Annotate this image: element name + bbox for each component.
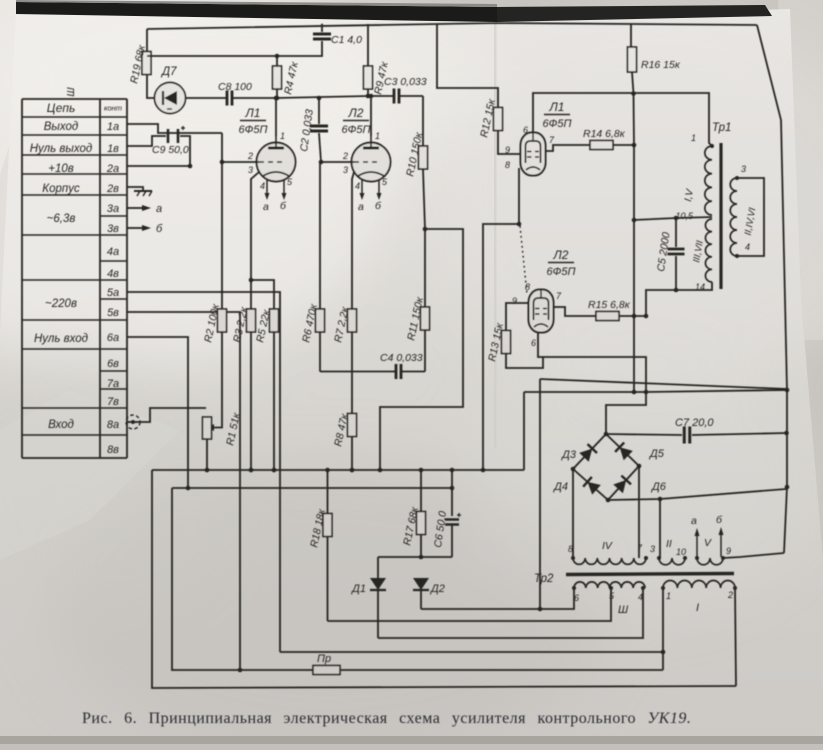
tube L2 pentode section (512, 248, 576, 348)
svg-text:V: V (704, 537, 712, 549)
svg-text:1в: 1в (107, 143, 119, 155)
wire Tr2 pin9 out (723, 553, 784, 558)
svg-text:6: 6 (531, 338, 536, 348)
resistor R15 (554, 299, 646, 321)
transformer Tr2 (534, 514, 737, 616)
resistor R4 (273, 56, 302, 100)
svg-text:10: 10 (676, 547, 686, 557)
svg-text:4: 4 (638, 592, 643, 602)
capacitor C9 electrolytic (152, 126, 189, 156)
svg-text:4в: 4в (107, 268, 119, 280)
svg-text:Д4: Д4 (552, 481, 568, 493)
transformer Tr1 primary (675, 122, 731, 292)
svg-text:5в: 5в (107, 307, 119, 319)
svg-text:C7 20,0: C7 20,0 (675, 417, 714, 429)
svg-text:6а: 6а (107, 332, 119, 344)
svg-text:а: а (691, 515, 697, 527)
svg-text:Выход: Выход (44, 121, 79, 133)
svg-text:Рис. 6. Принципиальная элек: Рис. 6. Принципиальная электрическая схе… (82, 710, 691, 727)
capacitor C3 (277, 76, 427, 104)
svg-text:C8 100: C8 100 (218, 81, 252, 93)
resistor R9 (364, 24, 392, 98)
svg-text:конт: конт (104, 104, 122, 113)
svg-text:9: 9 (512, 296, 517, 306)
wire to winding II pin3 (659, 499, 661, 558)
wire H652 (280, 650, 665, 655)
svg-text:C9 50,0: C9 50,0 (152, 144, 189, 156)
wire Tr2 pin1 down (662, 588, 664, 670)
wire Tr1 tap (634, 216, 712, 221)
tube L1 pentode section (505, 100, 572, 176)
svg-text:+10в: +10в (48, 163, 74, 175)
resistor R18 (308, 470, 332, 621)
svg-text:5а: 5а (107, 287, 119, 299)
svg-text:Д6: Д6 (650, 481, 667, 493)
svg-text:б: б (156, 223, 163, 235)
svg-text:Ш: Ш (66, 87, 77, 97)
wire L1a grid (220, 160, 259, 165)
svg-text:Д1: Д1 (350, 583, 366, 595)
connector table Sh (22, 87, 127, 458)
svg-text:3а: 3а (107, 203, 119, 215)
svg-text:4: 4 (745, 242, 750, 252)
capacitor C1 (147, 24, 362, 59)
wire D1 D2 anode link (378, 555, 452, 578)
svg-text:R14 6,8к: R14 6,8к (583, 128, 626, 140)
svg-text:4а: 4а (107, 246, 119, 258)
svg-text:R16 15к: R16 15к (641, 59, 681, 71)
svg-text:4: 4 (260, 181, 265, 191)
tube L1 triode section (239, 106, 296, 213)
wire bridge right to Tr2 (638, 466, 640, 558)
diode D7 (155, 66, 186, 114)
svg-text:I: I (696, 602, 699, 614)
svg-text:3: 3 (650, 544, 655, 554)
svg-text:Л1: Л1 (549, 100, 565, 114)
resistor R5 (251, 280, 279, 472)
wire bus2 (172, 470, 454, 516)
diode D2 (413, 578, 445, 609)
wire L2a grid (319, 160, 354, 165)
wire x540 heater rail (539, 379, 541, 609)
wire pentode L1 pin8 return (483, 168, 521, 470)
svg-text:8: 8 (505, 160, 510, 170)
svg-text:Л2: Л2 (348, 106, 364, 120)
capacitor C2 (298, 96, 328, 162)
capacitor C5 (655, 218, 684, 292)
wire bottom outer (152, 470, 736, 688)
svg-text:1: 1 (280, 131, 285, 141)
resistor R11 (405, 295, 429, 371)
svg-text:~6,3в: ~6,3в (47, 213, 76, 225)
capacitor C4 (320, 352, 425, 379)
caption (82, 710, 691, 727)
svg-text:а: а (263, 201, 269, 213)
resistor R8 (332, 412, 356, 472)
connector stub wires (126, 124, 280, 672)
svg-text:Пр: Пр (317, 653, 331, 665)
wire H621 (328, 588, 612, 621)
capacitor C6 electrolytic (432, 510, 461, 557)
svg-text:2а: 2а (106, 163, 119, 175)
wire Tr2 pin2 down (735, 588, 736, 686)
svg-text:Цепь: Цепь (47, 101, 76, 115)
svg-text:8в: 8в (107, 444, 119, 456)
svg-text:~220в: ~220в (45, 298, 77, 310)
svg-text:3в: 3в (107, 223, 119, 235)
tube L2 triode section (342, 106, 391, 213)
svg-text:8а: 8а (107, 419, 119, 431)
svg-text:2: 2 (247, 151, 253, 161)
wire L1a anode (274, 96, 279, 136)
resistor R14 (546, 128, 634, 151)
svg-text:Нуль выход: Нуль выход (30, 143, 93, 155)
rectifier bridge D3 D4 D5 D6 (552, 432, 667, 503)
svg-text:IV: IV (602, 540, 613, 552)
resistor R19 (128, 29, 154, 98)
svg-text:Д7: Д7 (160, 66, 177, 78)
svg-text:C3 0,033: C3 0,033 (384, 76, 427, 88)
wire bridge minus (608, 489, 786, 501)
svg-text:7в: 7в (107, 396, 119, 408)
resistor R2 (202, 133, 226, 431)
resistor R17 (401, 470, 425, 557)
wire L2a anode (369, 94, 374, 136)
svg-text:3: 3 (343, 165, 348, 175)
svg-text:1: 1 (666, 591, 671, 601)
wire right outer frame (757, 25, 789, 553)
svg-text:6Ф5П: 6Ф5П (239, 124, 268, 136)
resistor R12 (437, 24, 521, 154)
resistor R10 (404, 96, 427, 307)
svg-text:2в: 2в (106, 183, 119, 195)
svg-text:6в: 6в (107, 358, 119, 370)
svg-text:6Ф5П: 6Ф5П (342, 124, 371, 136)
wire top supply rail (147, 23, 757, 29)
wire bridge left to Tr2 (572, 469, 574, 558)
svg-text:II: II (666, 538, 672, 550)
transformer Tr1 secondary (730, 164, 764, 258)
svg-text:9: 9 (726, 546, 731, 556)
wire L2a cathode (352, 172, 354, 309)
wire to bridge top (606, 392, 646, 434)
svg-text:Д5: Д5 (648, 448, 665, 460)
wire H392 (524, 390, 787, 392)
wire H609 (421, 588, 574, 611)
svg-text:7а: 7а (107, 378, 119, 390)
svg-text:Тр2: Тр2 (534, 573, 554, 585)
wire pentode L2 grid dashed (520, 226, 527, 294)
wire H379 (540, 379, 787, 389)
svg-text:2: 2 (342, 151, 348, 161)
wire bus2 to fuse (172, 488, 313, 670)
wire cathode return (380, 229, 463, 470)
svg-text:R15 6,8к: R15 6,8к (588, 299, 631, 311)
svg-text:Д3: Д3 (560, 449, 577, 461)
svg-text:Ш: Ш (618, 604, 629, 616)
svg-text:1а: 1а (107, 121, 119, 133)
resistor R3 (231, 305, 255, 472)
svg-text:Корпус: Корпус (42, 183, 80, 195)
svg-text:3: 3 (248, 165, 253, 175)
svg-text:Л1: Л1 (245, 106, 261, 120)
capacitor C7 (606, 417, 787, 444)
wire L2 pentode cathode (538, 333, 648, 394)
svg-text:4: 4 (355, 181, 360, 191)
svg-text:6: 6 (574, 593, 579, 603)
resistor R6 (300, 162, 324, 372)
resistor R16 (628, 24, 681, 394)
wire Tr1 pin14 (644, 282, 712, 318)
svg-text:Л2: Л2 (553, 248, 569, 262)
svg-text:1: 1 (375, 131, 380, 141)
diode D1 (350, 578, 386, 638)
fuse Pr (313, 653, 663, 675)
wire bus1 (152, 392, 524, 472)
svg-text:8: 8 (568, 544, 573, 554)
svg-text:Нуль вход: Нуль вход (34, 333, 88, 345)
resistor R13 (486, 303, 543, 368)
wire H638 (378, 588, 643, 638)
svg-text:а: а (358, 201, 364, 213)
svg-text:Тр1: Тр1 (712, 122, 731, 134)
svg-text:Д2: Д2 (429, 583, 445, 595)
svg-text:6Ф5П: 6Ф5П (543, 118, 572, 130)
wire L1a cathode (249, 172, 259, 309)
svg-text:3: 3 (741, 164, 746, 174)
svg-text:6: 6 (523, 125, 528, 135)
potentiometer R1 (203, 411, 244, 472)
capacitor C8 (186, 81, 278, 106)
wire L1 plate to Tr1 (533, 91, 712, 146)
svg-text:Вход: Вход (48, 419, 74, 431)
resistor R7 (332, 305, 356, 413)
svg-text:1: 1 (691, 133, 696, 143)
svg-text:10,5: 10,5 (675, 211, 694, 221)
svg-text:C4 0,033: C4 0,033 (380, 352, 423, 364)
svg-text:2: 2 (727, 590, 733, 600)
svg-text:6Ф5П: 6Ф5П (547, 266, 576, 278)
svg-text:а: а (156, 203, 162, 215)
svg-text:C1 4,0: C1 4,0 (331, 34, 362, 46)
